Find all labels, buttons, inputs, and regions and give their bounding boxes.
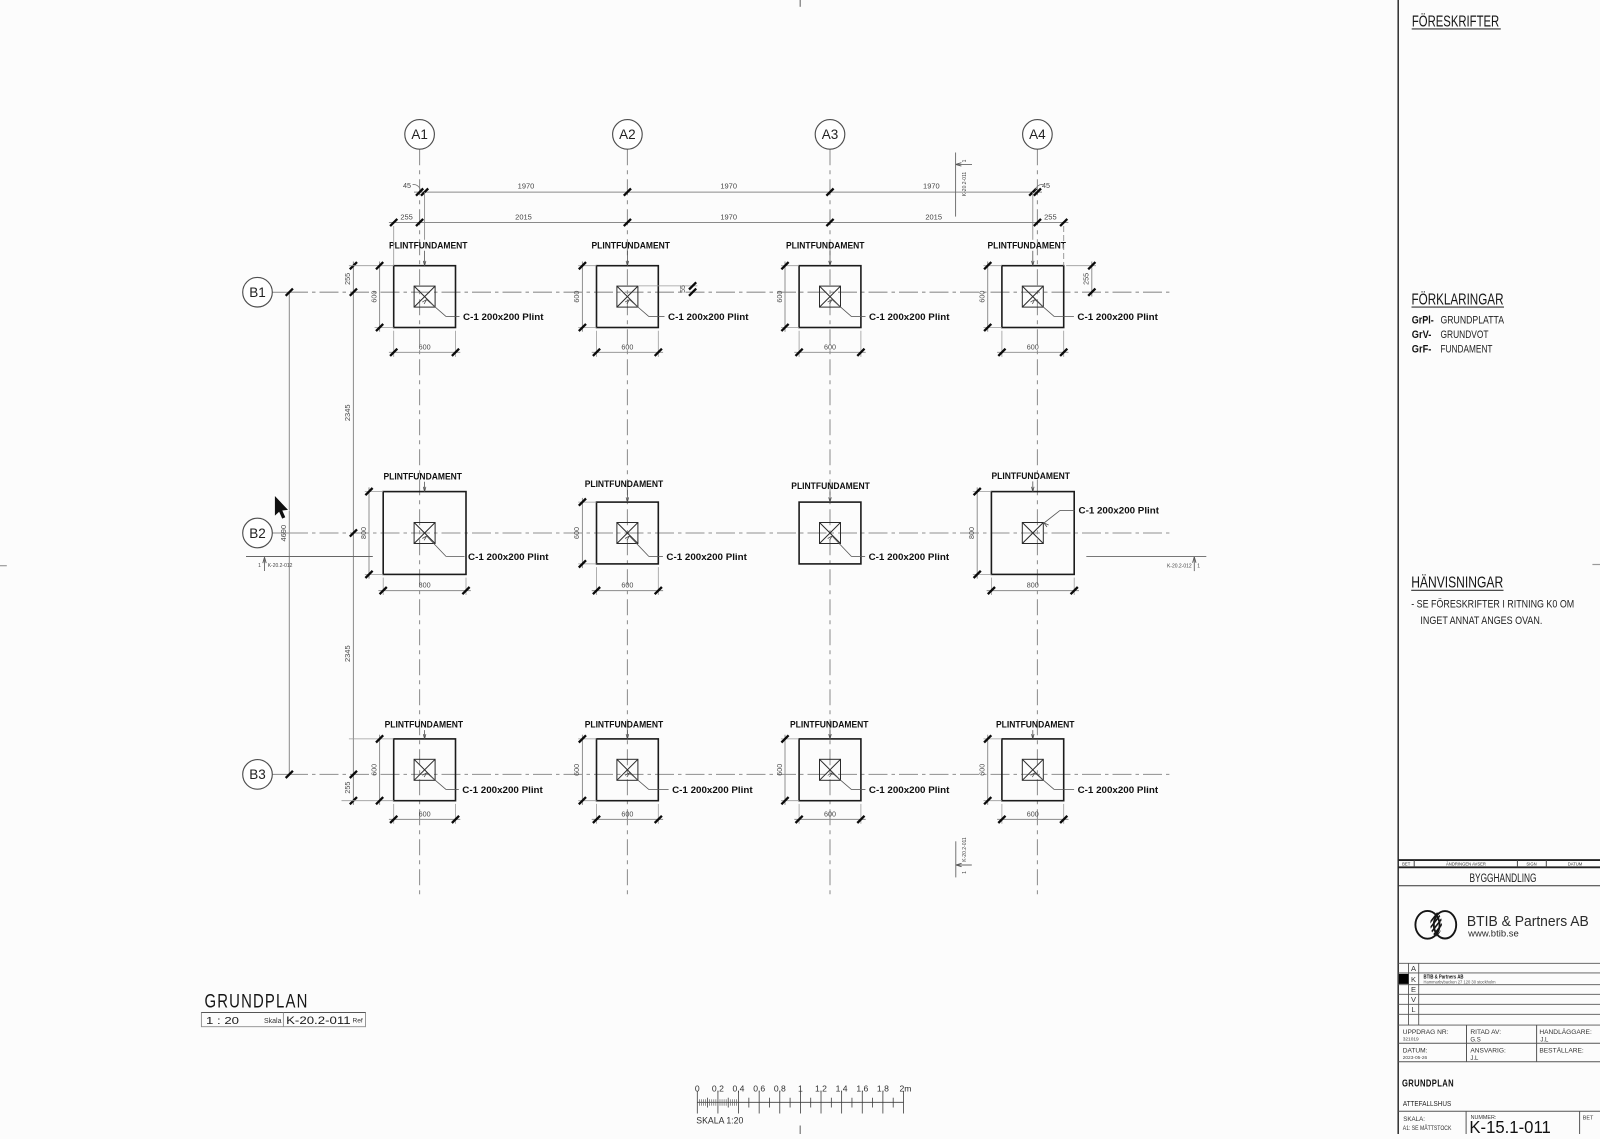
dim chain 255/2345/2345/255	[352, 262, 354, 805]
svg-text:SIGN: SIGN	[1526, 862, 1536, 867]
svg-text:J.L: J.L	[1470, 1056, 1479, 1062]
svg-text:FUNDAMENT: FUNDAMENT	[1441, 343, 1493, 355]
svg-text:600: 600	[978, 291, 987, 303]
svg-text:4690: 4690	[279, 525, 288, 542]
fold mark left	[0, 565, 7, 567]
svg-text:600: 600	[775, 291, 784, 303]
fold mark bottom	[799, 1126, 801, 1135]
svg-text:A1: SE MÅTTSTOCK: A1: SE MÅTTSTOCK	[1403, 1125, 1452, 1132]
svg-text:K-20.2-011: K-20.2-011	[286, 1015, 351, 1027]
svg-text:DATUM: DATUM	[1568, 862, 1583, 867]
svg-text:K-15.1-011: K-15.1-011	[1469, 1117, 1550, 1134]
svg-text:PLINTFUNDAMENT: PLINTFUNDAMENT	[389, 240, 468, 250]
svg-text:600: 600	[824, 342, 836, 351]
revision table	[1398, 963, 1600, 1025]
plint C-1 200x200 in A4/B1	[1022, 286, 1043, 307]
svg-text:800: 800	[359, 527, 368, 539]
leader arrow PLINTFUNDAMENT A3/B3	[829, 730, 831, 739]
svg-text:BET: BET	[1583, 1116, 1594, 1122]
svg-text:600: 600	[419, 342, 431, 351]
svg-text:1: 1	[258, 563, 261, 569]
foundation A4/B1 (600x600)	[1002, 266, 1064, 328]
foundation A2/B2 (600x600)	[597, 502, 659, 564]
leader C-1 A1/B1	[427, 300, 447, 317]
svg-text:L: L	[1411, 1005, 1415, 1014]
svg-text:1: 1	[962, 159, 968, 162]
dim 600 left of A1/B3	[349, 738, 394, 740]
plint C-1 200x200 in A2/B3	[617, 759, 638, 780]
title ref box	[201, 1013, 365, 1027]
dim 600 left of A3/B1	[781, 265, 799, 267]
leader arrow PLINTFUNDAMENT A3/B2	[829, 492, 831, 503]
dim 600 left of A2/B2	[578, 501, 596, 503]
svg-text:C-1 200x200 Plint: C-1 200x200 Plint	[462, 784, 543, 795]
grid bubble B2	[243, 518, 273, 548]
svg-text:BET: BET	[1402, 862, 1411, 867]
foundation A3/B3 (600x600)	[799, 739, 861, 801]
plint C-1 200x200 in A4/B2	[1022, 523, 1043, 544]
leader C-1 A3/B3	[832, 773, 852, 790]
svg-text:600: 600	[572, 291, 581, 303]
svg-text:GRUNDPLAN: GRUNDPLAN	[205, 991, 309, 1012]
svg-text:1,4: 1,4	[836, 1084, 848, 1094]
svg-text:1,8: 1,8	[877, 1084, 889, 1094]
svg-text:2345: 2345	[343, 645, 352, 662]
scale bar	[697, 1091, 903, 1114]
dim 600 left of A4/B3	[984, 738, 1002, 740]
leader arrow PLINTFUNDAMENT A3/B1	[829, 251, 831, 266]
svg-text:PLINTFUNDAMENT: PLINTFUNDAMENT	[790, 720, 869, 730]
svg-text:K-20.2-011: K-20.2-011	[962, 837, 968, 862]
dim 600 below A1/B3	[393, 804, 395, 824]
svg-text:600: 600	[621, 809, 633, 818]
svg-text:255: 255	[343, 273, 352, 285]
svg-text:1 : 20: 1 : 20	[206, 1015, 239, 1027]
grid bubble A4	[1023, 120, 1053, 150]
svg-text:BESTÄLLARE:: BESTÄLLARE:	[1539, 1047, 1584, 1055]
svg-text:C-1 200x200 Plint: C-1 200x200 Plint	[869, 311, 950, 322]
foundation A3/B1 (600x600)	[799, 266, 861, 328]
section mark K-20.2-012 right	[1086, 556, 1206, 558]
svg-text:800: 800	[967, 527, 976, 539]
svg-text:800: 800	[419, 581, 431, 590]
svg-text:1970: 1970	[518, 182, 535, 191]
witness line plint A4 centre	[1032, 192, 1034, 240]
svg-text:0: 0	[695, 1084, 700, 1094]
leader C-1 A3/B2	[832, 536, 852, 557]
svg-text:INGET ANNAT ANGES OVAN.: INGET ANNAT ANGES OVAN.	[1420, 615, 1542, 627]
witness line plint A1 centre	[424, 192, 426, 240]
svg-text:B2: B2	[249, 526, 266, 541]
svg-text:45: 45	[403, 181, 411, 190]
svg-text:K-20.2-012: K-20.2-012	[1167, 564, 1192, 570]
svg-text:GrPl-: GrPl-	[1412, 315, 1434, 327]
dim 600 below A4/B3	[1001, 804, 1003, 824]
svg-text:255: 255	[400, 213, 413, 222]
svg-text:A: A	[1411, 964, 1416, 973]
dim 600 below A2/B3	[596, 804, 598, 824]
foundation A1/B1 (600x600)	[394, 266, 456, 328]
foundation A1/B2 (800x800)	[383, 492, 466, 575]
grid bubble A1	[405, 120, 435, 150]
svg-text:GRUNDPLATTA: GRUNDPLATTA	[1441, 315, 1505, 327]
foundation A2/B1 (600x600)	[597, 266, 659, 328]
svg-text:1: 1	[1197, 563, 1200, 569]
dim line 1 (plint spacing 45/1970/1970/1970/45)	[414, 191, 1042, 193]
svg-text:BTIB & Partners AB: BTIB & Partners AB	[1467, 913, 1589, 930]
svg-text:2015: 2015	[925, 213, 942, 222]
grid line A3 (vertical dashed)	[829, 149, 831, 899]
svg-text:C-1 200x200 Plint: C-1 200x200 Plint	[668, 311, 749, 322]
svg-text:PLINTFUNDAMENT: PLINTFUNDAMENT	[592, 240, 671, 250]
svg-text:FÖRKLARINGAR: FÖRKLARINGAR	[1412, 290, 1504, 308]
info table	[1398, 1025, 1600, 1062]
svg-text:A1: A1	[411, 127, 428, 142]
svg-text:800: 800	[1027, 581, 1039, 590]
svg-text:600: 600	[621, 342, 633, 351]
svg-text:G.S: G.S	[1470, 1037, 1480, 1043]
dim 600 left of A4/B1	[984, 265, 1002, 267]
svg-text:ATTEFALLSHUS: ATTEFALLSHUS	[1403, 1099, 1451, 1108]
leader arrow PLINTFUNDAMENT A4/B1	[1032, 251, 1034, 266]
svg-text:HÄNVISNINGAR: HÄNVISNINGAR	[1411, 575, 1503, 592]
grid line B3 (horizontal dash-dot)	[272, 773, 289, 775]
svg-text:ANSVARIG:: ANSVARIG:	[1470, 1048, 1506, 1055]
leader arrow PLINTFUNDAMENT A1/B2	[424, 482, 426, 492]
svg-text:PLINTFUNDAMENT: PLINTFUNDAMENT	[585, 479, 664, 489]
svg-text:600: 600	[369, 291, 378, 303]
svg-text:C-1 200x200 Plint: C-1 200x200 Plint	[468, 551, 549, 562]
plint C-1 200x200 in A1/B1	[414, 286, 435, 307]
leader C-1 A4/B3	[1035, 773, 1055, 790]
foundation A2/B3 (600x600)	[597, 739, 659, 801]
dim 600 left of A1/B1	[349, 265, 394, 267]
svg-text:PLINTFUNDAMENT: PLINTFUNDAMENT	[385, 720, 464, 730]
svg-text:1970: 1970	[720, 213, 737, 222]
bottom row	[1398, 1111, 1600, 1134]
grid bubble A2	[613, 120, 643, 150]
svg-text:2023-05-26: 2023-05-26	[1403, 1055, 1428, 1061]
grid line B2 (horizontal dash-dot)	[272, 532, 289, 534]
svg-text:C-1 200x200 Plint: C-1 200x200 Plint	[463, 311, 544, 322]
svg-text:PLINTFUNDAMENT: PLINTFUNDAMENT	[791, 481, 870, 491]
revision strip	[1398, 860, 1600, 867]
svg-text:SKALA 1:20: SKALA 1:20	[696, 1114, 743, 1125]
svg-text:B1: B1	[249, 285, 266, 300]
plint C-1 200x200 in A1/B2	[414, 523, 435, 544]
witness line fnd A4 right edge (dashed)	[1063, 226, 1065, 266]
svg-text:321019: 321019	[1403, 1037, 1419, 1043]
svg-text:RITAD AV:: RITAD AV:	[1470, 1029, 1501, 1036]
svg-text:2345: 2345	[343, 404, 352, 421]
leader C-1 A3/B1	[832, 300, 852, 317]
svg-text:600: 600	[775, 764, 784, 776]
svg-text:K: K	[1411, 975, 1416, 984]
svg-text:255: 255	[1044, 213, 1057, 222]
svg-text:FÖRESKRIFTER: FÖRESKRIFTER	[1412, 12, 1499, 30]
svg-text:600: 600	[369, 764, 378, 776]
plint C-1 200x200 in A4/B3	[1022, 759, 1043, 780]
svg-text:C-1 200x200 Plint: C-1 200x200 Plint	[869, 551, 950, 562]
dim 800 below A4/B2	[990, 578, 992, 595]
svg-text:E: E	[1411, 985, 1416, 994]
svg-text:C-1 200x200 Plint: C-1 200x200 Plint	[1079, 505, 1160, 516]
svg-text:600: 600	[824, 809, 836, 818]
plint C-1 200x200 in A3/B2	[820, 523, 841, 544]
svg-text:DATUM:: DATUM:	[1403, 1048, 1428, 1055]
leader C-1 A1/B3	[427, 773, 447, 790]
foundation A4/B3 (600x600)	[1002, 739, 1064, 801]
dim 600 below A3/B1	[798, 331, 800, 357]
svg-text:A4: A4	[1029, 127, 1046, 142]
svg-text:K-20.2-012: K-20.2-012	[268, 563, 293, 569]
svg-text:600: 600	[621, 581, 633, 590]
logo circles	[1415, 911, 1456, 939]
svg-text:1970: 1970	[923, 182, 940, 191]
mouse cursor	[275, 496, 288, 519]
svg-text:V: V	[1411, 995, 1416, 1004]
svg-text:PLINTFUNDAMENT: PLINTFUNDAMENT	[786, 240, 865, 250]
svg-text:255: 255	[343, 782, 352, 794]
svg-text:PLINTFUNDAMENT: PLINTFUNDAMENT	[585, 720, 664, 730]
dim 600 below A3/B3	[798, 804, 800, 824]
svg-text:45: 45	[1042, 181, 1050, 190]
svg-text:Ref: Ref	[353, 1017, 363, 1024]
leader C-1 A2/B1	[629, 300, 649, 317]
svg-text:2015: 2015	[515, 213, 532, 222]
svg-text:C-1 200x200 Plint: C-1 200x200 Plint	[1077, 311, 1158, 322]
svg-text:- SE FÖRESKRIFTER I RITNING K0: - SE FÖRESKRIFTER I RITNING K0 OM	[1411, 598, 1574, 610]
svg-text:PLINTFUNDAMENT: PLINTFUNDAMENT	[996, 720, 1075, 730]
leader arrow PLINTFUNDAMENT A4/B2	[1032, 481, 1034, 491]
leader C-1 A2/B3	[629, 773, 649, 790]
dim 600 below A4/B1	[1001, 331, 1003, 357]
svg-text:ÄNDRINGEN AVSER: ÄNDRINGEN AVSER	[1446, 862, 1486, 867]
svg-text:www.btib.se: www.btib.se	[1467, 929, 1519, 939]
svg-text:55: 55	[680, 285, 687, 293]
svg-text:1,6: 1,6	[856, 1084, 868, 1094]
svg-text:0,2: 0,2	[712, 1084, 724, 1094]
grid line A2 (vertical dashed)	[626, 149, 628, 899]
svg-text:GrV-: GrV-	[1412, 329, 1432, 341]
svg-text:C-1 200x200 Plint: C-1 200x200 Plint	[1078, 784, 1159, 795]
svg-text:PLINTFUNDAMENT: PLINTFUNDAMENT	[384, 471, 463, 481]
svg-text:C-1 200x200 Plint: C-1 200x200 Plint	[666, 551, 747, 562]
grid bubble B1	[243, 277, 273, 307]
svg-text:BYGGHANDLING: BYGGHANDLING	[1470, 871, 1537, 885]
fold mark top	[799, 0, 801, 7]
grid line B1 (horizontal dash-dot)	[272, 291, 289, 293]
svg-text:600: 600	[419, 809, 431, 818]
dim line 2 (255/2015/1970/2015/255)	[389, 222, 1069, 224]
leader arrow PLINTFUNDAMENT A1/B3	[424, 730, 426, 739]
svg-text:0,6: 0,6	[753, 1084, 765, 1094]
svg-text:C-1 200x200 Plint: C-1 200x200 Plint	[869, 784, 950, 795]
svg-text:Skala: Skala	[264, 1018, 282, 1025]
leader arrow PLINTFUNDAMENT A2/B3	[626, 730, 628, 739]
grid line A4 (vertical dashed)	[1036, 149, 1038, 899]
dim 255 right of A4/B1	[1066, 265, 1096, 267]
svg-text:600: 600	[572, 527, 581, 539]
plint C-1 200x200 in A2/B2	[617, 523, 638, 544]
foundation A4/B2 (800x800)	[991, 492, 1074, 575]
svg-text:600: 600	[572, 764, 581, 776]
dim 600 below A2/B1	[596, 331, 598, 357]
fold mark right	[1592, 564, 1600, 566]
section mark K-20.2-012 left	[246, 556, 373, 558]
leader arrow PLINTFUNDAMENT A1/B1	[424, 251, 426, 266]
section mark K-20.2-011 bottom	[955, 841, 957, 877]
svg-text:C-1 200x200 Plint: C-1 200x200 Plint	[672, 784, 753, 795]
leader C-1 A4/B2 (up-right)	[1060, 509, 1075, 511]
svg-text:600: 600	[1027, 809, 1039, 818]
dim 800 left of A4/B2	[973, 491, 992, 493]
svg-text:0,8: 0,8	[774, 1084, 786, 1094]
svg-text:1: 1	[798, 1084, 803, 1094]
leader C-1 A4/B1	[1035, 300, 1055, 317]
black marker K row	[1399, 974, 1409, 984]
svg-text:J.L: J.L	[1540, 1037, 1549, 1043]
leader C-1 A2/B2	[629, 536, 649, 557]
section mark K-20.2-011 top	[955, 153, 957, 217]
plint C-1 200x200 in A1/B3	[414, 759, 435, 780]
svg-text:GRUNDPLAN: GRUNDPLAN	[1402, 1078, 1454, 1089]
svg-text:GRUNDVOT: GRUNDVOT	[1441, 329, 1489, 341]
grid bubble B3	[243, 760, 273, 790]
grid bubble A3	[815, 120, 845, 150]
foundation A1/B3 (600x600)	[394, 739, 456, 801]
grid line A1 (vertical dashed)	[419, 149, 421, 899]
witness line fnd A1 left edge	[393, 226, 395, 266]
svg-text:1,2: 1,2	[815, 1084, 827, 1094]
svg-text:1: 1	[962, 871, 968, 874]
svg-text:A2: A2	[619, 127, 636, 142]
dim 55 right of A2/B1 plint	[638, 285, 698, 287]
svg-text:600: 600	[1027, 342, 1039, 351]
leader arrow PLINTFUNDAMENT A2/B2	[626, 490, 628, 502]
plint C-1 200x200 in A3/B3	[820, 759, 841, 780]
leader arrow PLINTFUNDAMENT A2/B1	[626, 251, 628, 266]
leader arrow PLINTFUNDAMENT A4/B3	[1032, 730, 1034, 739]
dim 600 below A2/B2	[596, 567, 598, 595]
dim 600 below A1/B1	[393, 331, 395, 357]
overall dim 4690 (B1-B3)	[288, 292, 290, 774]
svg-text:1970: 1970	[720, 182, 737, 191]
svg-text:K-20.2-011: K-20.2-011	[962, 172, 968, 197]
plint C-1 200x200 in A2/B1	[617, 286, 638, 307]
svg-text:0,4: 0,4	[733, 1084, 745, 1094]
svg-text:SKALA:: SKALA:	[1403, 1116, 1425, 1123]
svg-text:255: 255	[1081, 273, 1090, 285]
svg-text:PLINTFUNDAMENT: PLINTFUNDAMENT	[992, 471, 1071, 481]
title block border	[1397, 0, 1399, 1134]
svg-text:600: 600	[978, 764, 987, 776]
svg-text:GrF-: GrF-	[1412, 343, 1432, 355]
plint C-1 200x200 in A3/B1	[820, 286, 841, 307]
svg-text:2m: 2m	[900, 1084, 912, 1094]
dim 800 left of A1/B2	[365, 491, 383, 493]
dim 800 below A1/B2	[382, 578, 384, 595]
leader C-1 A1/B2	[427, 536, 447, 557]
svg-text:B3: B3	[249, 767, 266, 782]
dim 600 left of A2/B1	[578, 265, 596, 267]
svg-text:UPPDRAG NR:: UPPDRAG NR:	[1403, 1029, 1449, 1036]
foundation A3/B2 (600x600)	[799, 502, 861, 564]
svg-text:Hammarbybacken 27 120 30 stock: Hammarbybacken 27 120 30 stockholm	[1424, 979, 1496, 984]
svg-text:PLINTFUNDAMENT: PLINTFUNDAMENT	[988, 240, 1067, 250]
svg-text:A3: A3	[822, 127, 839, 142]
dim 600 left of A2/B3	[578, 738, 596, 740]
svg-text:HANDLÄGGARE:: HANDLÄGGARE:	[1539, 1028, 1592, 1036]
dim 600 left of A3/B3	[781, 738, 799, 740]
